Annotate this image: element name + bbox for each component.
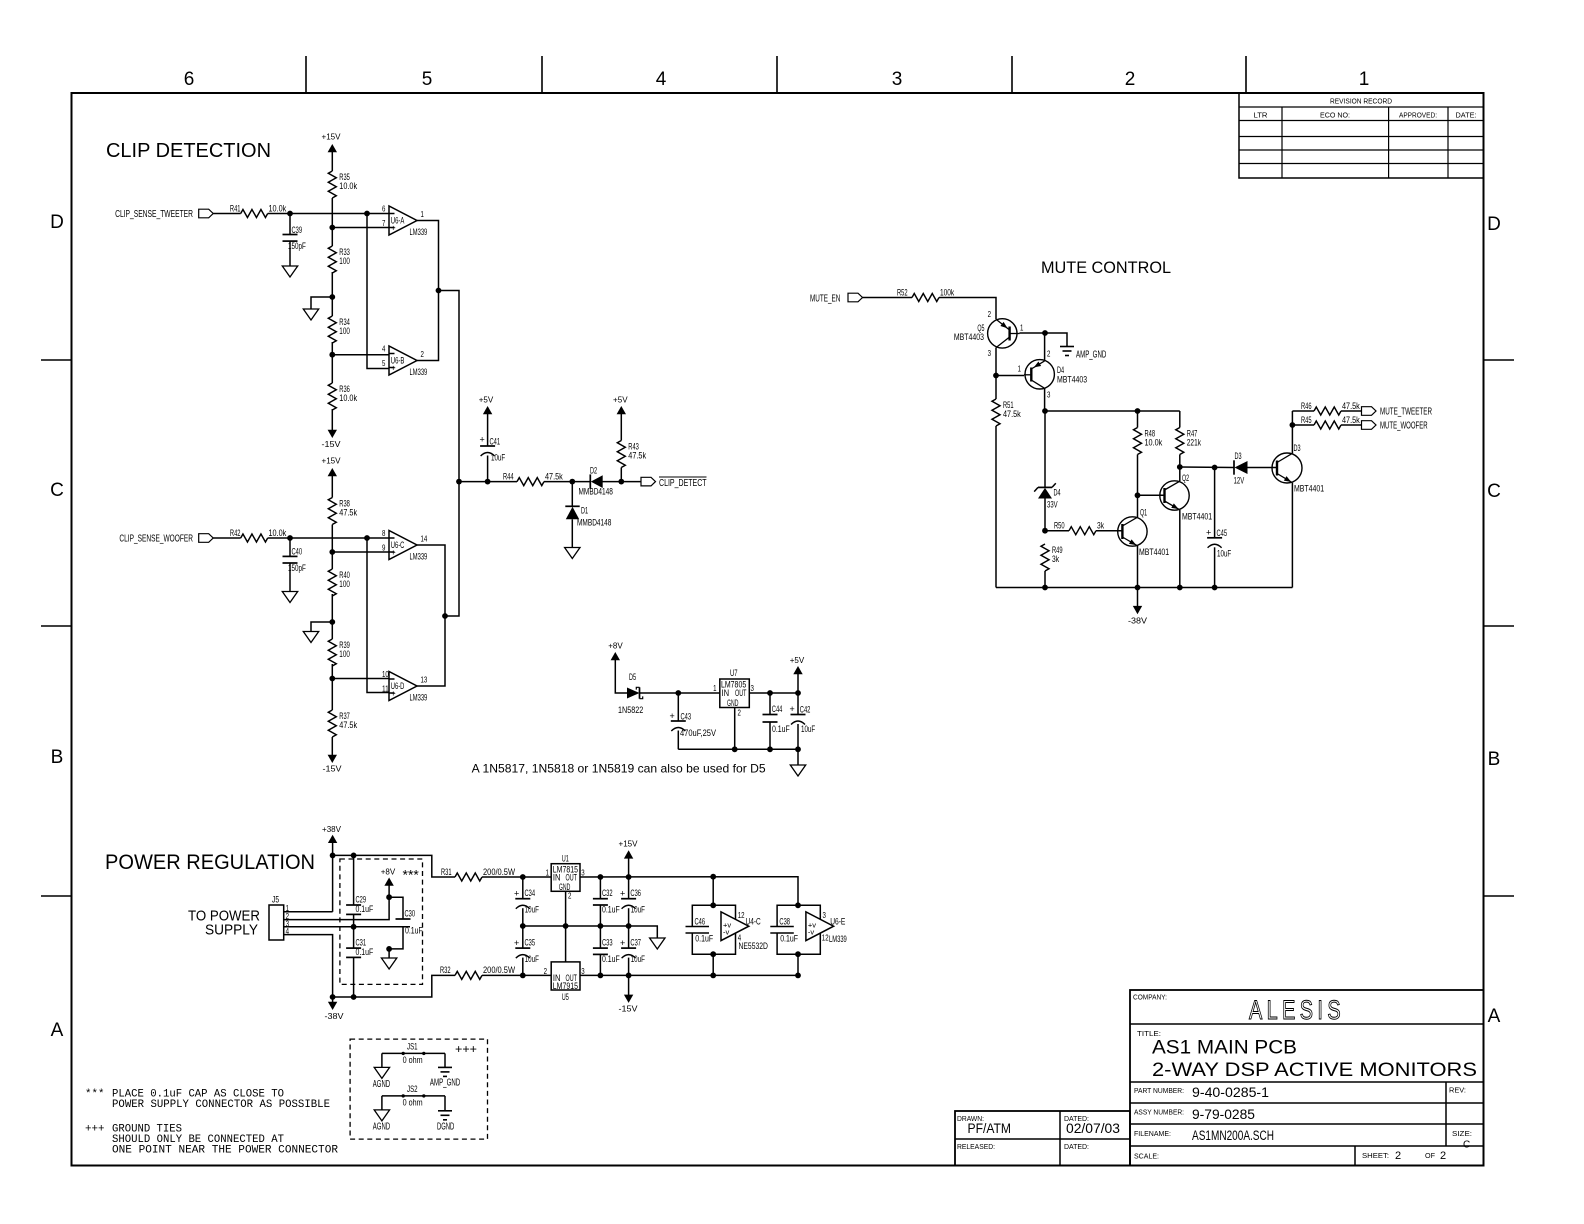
resistor R39 (328, 639, 350, 666)
net MUTE_TWEETER (1362, 407, 1433, 418)
svg-text:+++: +++ (455, 1042, 477, 1056)
svg-text:C39: C39 (292, 225, 303, 235)
svg-text:LTR: LTR (1254, 111, 1269, 120)
capacitor C31 (346, 927, 374, 997)
net CLIP_DETECT (641, 477, 707, 489)
resistor R46 (1292, 401, 1361, 415)
svg-text:7: 7 (382, 218, 386, 228)
resistor R42 (230, 528, 287, 542)
svg-text:APPROVED:: APPROVED: (1399, 111, 1437, 120)
column numbers (184, 69, 1370, 90)
svg-text:C44: C44 (772, 704, 783, 714)
ground AGND JS2 (373, 1110, 390, 1132)
node pin9 tap (329, 549, 389, 555)
svg-text:-15V: -15V (323, 764, 342, 774)
net CLIP_SENSE_WOOFER (119, 534, 240, 545)
svg-text:10uF: 10uF (631, 905, 646, 915)
svg-text:D3: D3 (1294, 443, 1301, 453)
wire Q5 base to AMP_GND node (1020, 330, 1068, 346)
svg-text:1: 1 (1018, 364, 1022, 374)
resistor R38 (328, 498, 357, 525)
capacitor C41 (479, 395, 506, 482)
svg-text:+: + (670, 711, 675, 721)
svg-text:C37: C37 (630, 937, 641, 947)
row ticks left and right (41, 360, 1514, 896)
svg-text:470uF,25V: 470uF,25V (680, 728, 716, 738)
wire D4 collector down (1044, 388, 1046, 411)
svg-text:1: 1 (713, 683, 717, 693)
ground D1 (565, 548, 580, 559)
svg-text:6: 6 (382, 204, 386, 214)
svg-text:SIZE:: SIZE: (1452, 1129, 1472, 1138)
svg-text:+5V: +5V (790, 655, 805, 665)
svg-text:47.5k: 47.5k (628, 451, 646, 461)
power +15V (woofer divider) (322, 456, 341, 498)
svg-text:2: 2 (1047, 349, 1051, 359)
rail -15V row (580, 954, 801, 978)
svg-text:REVISION RECORD: REVISION RECORD (1330, 97, 1392, 106)
power -38V (325, 997, 344, 1021)
regulator U7 LM7805 (713, 668, 754, 749)
svg-text:+: + (514, 889, 519, 899)
svg-text:C30: C30 (405, 909, 416, 919)
svg-text:CLIP DETECTION: CLIP DETECTION (106, 140, 271, 162)
svg-text:33V: 33V (1047, 500, 1058, 510)
svg-text:2: 2 (568, 891, 572, 901)
wire J5 pin2 (284, 897, 389, 919)
svg-text:MBT4403: MBT4403 (954, 332, 984, 342)
op-amp U6-D (382, 669, 427, 703)
svg-text:POWER REGULATION: POWER REGULATION (105, 851, 315, 874)
ground mid rail (650, 938, 665, 949)
svg-text:C40: C40 (292, 547, 303, 557)
transistor Q2 (1160, 473, 1212, 522)
svg-text:LM339: LM339 (410, 367, 428, 377)
svg-text:+8V: +8V (381, 867, 396, 877)
capacitor C38 (770, 917, 798, 944)
svg-text:C42: C42 (800, 705, 811, 715)
svg-text:ALESIS: ALESIS (1249, 995, 1345, 1025)
wire Q5-D4 base link (996, 375, 1024, 377)
ground triangle U7 (790, 765, 805, 776)
svg-text:REV:: REV: (1449, 1086, 1466, 1095)
label TO POWER SUPPLY (188, 908, 260, 939)
svg-text:2: 2 (1395, 1150, 1401, 1162)
jumper JS2 (382, 1084, 445, 1111)
svg-text:+: + (480, 435, 485, 445)
svg-text:2-WAY DSP ACTIVE MONITORS: 2-WAY DSP ACTIVE MONITORS (1152, 1060, 1477, 1081)
note place caps (85, 1088, 330, 1110)
svg-text:-v: -v (723, 928, 729, 937)
op-amp U4-C (721, 910, 768, 951)
svg-text:POWER SUPPLY CONNECTOR AS POSS: POWER SUPPLY CONNECTOR AS POSSIBLE (112, 1099, 330, 1111)
power -15V (tweeter divider) (322, 409, 341, 449)
wire R42 to opamp (268, 535, 389, 541)
power +15V (tweeter divider) (322, 132, 341, 172)
transistor Q5 (954, 309, 1024, 358)
svg-text:10uF: 10uF (801, 724, 816, 734)
transistor D3 (Q) (1272, 443, 1324, 494)
svg-text:U1: U1 (562, 854, 569, 864)
power -38V mute (1128, 588, 1147, 626)
svg-text:3: 3 (823, 910, 827, 920)
svg-text:C36: C36 (630, 888, 641, 898)
svg-text:10.0k: 10.0k (339, 181, 357, 191)
svg-text:+: + (391, 688, 396, 698)
ground AGND JS1 (373, 1067, 390, 1090)
wire Q1 emitter (1137, 546, 1139, 588)
svg-text:12: 12 (822, 933, 829, 943)
node pin4 tap (329, 352, 389, 358)
svg-text:6: 6 (184, 69, 195, 90)
node R50 tap (1042, 528, 1069, 534)
svg-text:ONE POINT NEAR THE POWER CONNE: ONE POINT NEAR THE POWER CONNECTOR (112, 1144, 339, 1156)
svg-text:FILENAME:: FILENAME: (1134, 1129, 1171, 1138)
svg-text:0.1uF: 0.1uF (602, 954, 620, 964)
svg-text:+: + (620, 889, 625, 899)
rail mid GND row (520, 923, 657, 938)
svg-text:R41: R41 (230, 203, 241, 213)
power -15V arrow (619, 975, 638, 1013)
diode D5 (618, 672, 720, 715)
svg-text:-38V: -38V (325, 1011, 344, 1021)
power +5V into D5 (608, 641, 627, 693)
wire U7 output (749, 690, 801, 696)
wire J5 pin4 (284, 935, 333, 997)
svg-text:0 ohm: 0 ohm (403, 1055, 423, 1065)
resistor R31 (441, 867, 551, 881)
svg-text:150pF: 150pF (288, 241, 306, 251)
wire R39-R37 (331, 664, 333, 710)
ground C39 (282, 266, 297, 277)
svg-text:2: 2 (421, 349, 425, 359)
note ground ties (85, 1124, 339, 1157)
svg-text:9: 9 (382, 543, 386, 553)
svg-text:B: B (51, 747, 64, 768)
svg-text:JS2: JS2 (407, 1084, 418, 1094)
wire U6-A/B outputs (417, 221, 459, 617)
wire R35-R33 divider segment (331, 198, 333, 246)
ground C40 (282, 592, 297, 603)
svg-text:47.5k: 47.5k (1003, 409, 1021, 419)
svg-text:1: 1 (421, 209, 425, 219)
svg-text:R44: R44 (503, 471, 514, 481)
svg-text:2: 2 (738, 708, 742, 718)
svg-text:AS1MN200A.SCH: AS1MN200A.SCH (1192, 1128, 1274, 1143)
svg-text:DATE:: DATE: (1456, 111, 1477, 120)
svg-text:IN: IN (722, 688, 730, 698)
svg-text:1: 1 (546, 868, 550, 878)
svg-text:NE5532D: NE5532D (739, 941, 769, 951)
svg-text:3: 3 (892, 69, 903, 90)
svg-text:R42: R42 (230, 528, 241, 538)
svg-text:MUTE_WOOFER: MUTE_WOOFER (1380, 421, 1428, 432)
wire Q2 collector row (1180, 465, 1234, 471)
svg-text:MBT4403: MBT4403 (1057, 375, 1087, 385)
svg-text:10uF: 10uF (525, 954, 540, 964)
wire Q1 collector (1135, 492, 1141, 517)
svg-text:47.5k: 47.5k (339, 508, 357, 518)
wire J5 pin1 (284, 911, 333, 913)
svg-text:100: 100 (339, 579, 350, 589)
svg-text:J5: J5 (272, 895, 279, 905)
capacitor C34 (514, 877, 539, 926)
svg-text:0.1uF: 0.1uF (602, 905, 620, 915)
svg-text:JS1: JS1 (407, 1042, 418, 1052)
svg-text:100: 100 (339, 649, 350, 659)
op-amp U6-A (382, 204, 427, 238)
svg-text:MUTE_TWEETER: MUTE_TWEETER (1380, 407, 1432, 418)
svg-text:CLIP_SENSE_TWEETER: CLIP_SENSE_TWEETER (115, 209, 193, 220)
resistor R41 (230, 203, 287, 217)
resistor R37 (328, 710, 357, 737)
svg-text:RELEASED:: RELEASED: (957, 1142, 995, 1151)
svg-text:12: 12 (738, 910, 745, 920)
svg-text:C45: C45 (1217, 528, 1228, 538)
svg-text:5: 5 (382, 358, 386, 368)
svg-text:OUT: OUT (735, 688, 747, 698)
svg-text:AMP_GND: AMP_GND (1076, 350, 1106, 361)
svg-text:U5: U5 (562, 992, 569, 1002)
svg-text:U4-C: U4-C (746, 917, 762, 927)
svg-text:LM339: LM339 (829, 934, 847, 944)
svg-text:10.0k: 10.0k (339, 393, 357, 403)
svg-text:02/07/03: 02/07/03 (1066, 1121, 1120, 1136)
svg-text:47.5k: 47.5k (545, 471, 563, 481)
svg-text:R46: R46 (1301, 401, 1312, 411)
svg-text:D3: D3 (1235, 451, 1242, 461)
svg-text:MMBD4148: MMBD4148 (577, 518, 611, 528)
resistor R44 (503, 471, 563, 485)
svg-text:0.1uF: 0.1uF (780, 934, 798, 944)
svg-text:A: A (1488, 1006, 1501, 1027)
svg-text:10: 10 (382, 669, 389, 679)
svg-text:3k: 3k (1052, 554, 1059, 564)
svg-text:3: 3 (751, 683, 755, 693)
svg-text:47.5k: 47.5k (1342, 401, 1360, 411)
svg-text:0.1uF: 0.1uF (695, 934, 713, 944)
svg-text:***: *** (403, 867, 420, 883)
op-amp U6-E (806, 910, 847, 944)
ground AMP_GND JS1 (430, 1067, 460, 1088)
svg-text:D: D (1487, 214, 1501, 235)
wire Q1 base to Q2 (1138, 494, 1165, 496)
ground AGND C30 (381, 958, 396, 969)
section title CLIP DETECTION (106, 140, 271, 162)
wire Q2 emitter (1179, 510, 1181, 588)
op-amp U6-B (382, 344, 427, 378)
svg-text:C43: C43 (681, 712, 692, 722)
bypass box U6-E (777, 902, 820, 957)
power -15V (woofer divider) (323, 737, 342, 774)
svg-text:ASSY NUMBER:: ASSY NUMBER: (1134, 1108, 1184, 1117)
ground tap lower (303, 619, 335, 642)
wire D4 emitter up (1044, 333, 1046, 361)
svg-text:9-40-0285-1: 9-40-0285-1 (1192, 1085, 1269, 1100)
svg-text:14: 14 (421, 534, 428, 544)
svg-text:***: *** (85, 1088, 104, 1100)
svg-text:10uF: 10uF (1217, 549, 1232, 559)
capacitor C46 (686, 917, 714, 944)
zener D4 (1034, 411, 1060, 531)
svg-text:+38V: +38V (322, 824, 341, 834)
svg-text:47.5k: 47.5k (339, 720, 357, 730)
capacitor C33 (593, 926, 620, 975)
resistor R52 (897, 287, 955, 301)
svg-text:150pF: 150pF (288, 563, 306, 573)
svg-text:GND: GND (727, 698, 739, 708)
svg-text:4: 4 (382, 344, 386, 354)
svg-text:C: C (1487, 481, 1501, 502)
svg-text:2: 2 (1125, 69, 1136, 90)
ground tap upper (303, 294, 335, 320)
svg-text:47.5k: 47.5k (1342, 415, 1360, 425)
svg-text:9-79-0285: 9-79-0285 (1192, 1107, 1255, 1122)
svg-text:SHEET:: SHEET: (1362, 1151, 1389, 1160)
svg-text:+5V: +5V (613, 395, 628, 405)
svg-text:MBT4401: MBT4401 (1182, 512, 1212, 522)
svg-text:OF: OF (1425, 1151, 1435, 1160)
svg-text:200/0.5W: 200/0.5W (483, 965, 515, 975)
power +15V arrow (619, 838, 638, 877)
svg-text:AS1 MAIN PCB: AS1 MAIN PCB (1152, 1038, 1297, 1059)
svg-text:CLIP_SENSE_WOOFER: CLIP_SENSE_WOOFER (119, 534, 193, 545)
svg-text:A: A (51, 1020, 64, 1041)
svg-text:11: 11 (382, 684, 389, 694)
svg-text:2: 2 (988, 309, 992, 319)
svg-text:100: 100 (339, 256, 350, 266)
resistor R36 (328, 383, 357, 410)
svg-text:U7: U7 (730, 668, 738, 678)
svg-text:AGND: AGND (373, 1079, 390, 1090)
svg-text:10uF: 10uF (631, 954, 646, 964)
svg-text:MUTE_EN: MUTE_EN (810, 294, 840, 305)
svg-text:+8V: +8V (608, 641, 623, 651)
svg-text:0.1uF: 0.1uF (356, 947, 374, 957)
svg-text:-15V: -15V (322, 439, 341, 449)
wire R34-R36 (331, 342, 333, 383)
capacitor C36 (620, 877, 645, 926)
resistor R35 (328, 171, 357, 198)
svg-text:R31: R31 (441, 867, 452, 877)
wire to U6-D plus input (367, 538, 389, 693)
svg-text:A 1N5817, 1N5818 or 1N5819 can: A 1N5817, 1N5818 or 1N5819 can also be u… (472, 761, 766, 775)
svg-text:PF/ATM: PF/ATM (968, 1121, 1012, 1136)
resistor R43 (613, 395, 646, 482)
svg-text:+5V: +5V (479, 395, 494, 405)
svg-text:3: 3 (581, 966, 585, 976)
svg-text:LM339: LM339 (410, 227, 428, 237)
svg-text:LM7915: LM7915 (553, 981, 578, 991)
svg-text:+: + (391, 547, 396, 557)
svg-text:+: + (1206, 528, 1211, 538)
svg-text:+15V: +15V (322, 132, 341, 142)
net MUTE_WOOFER (1362, 421, 1428, 432)
svg-text:2: 2 (1440, 1150, 1446, 1162)
bypass box U4-C (692, 877, 735, 976)
ground rail under U7 (678, 746, 801, 765)
wire D3 emitter down (1291, 483, 1293, 588)
svg-text:1: 1 (1359, 69, 1370, 90)
svg-text:-v: -v (808, 928, 814, 937)
wire to U6-B plus input (367, 214, 389, 369)
sheet border frame (72, 93, 1484, 1166)
svg-text:D: D (50, 212, 64, 233)
svg-text:PART NUMBER:: PART NUMBER: (1134, 1086, 1184, 1095)
resistor R49 (1041, 544, 1063, 588)
svg-text:+++: +++ (85, 1124, 104, 1136)
svg-text:0.1uF: 0.1uF (405, 926, 423, 936)
svg-text:+15V: +15V (322, 456, 341, 466)
svg-text:Q2: Q2 (1182, 473, 1189, 483)
resistor R50 (1054, 521, 1122, 535)
wire +38 to J5 pin1 (332, 855, 334, 911)
svg-text:Q1: Q1 (1140, 508, 1147, 518)
svg-text:8: 8 (382, 528, 386, 538)
svg-text:12V: 12V (1234, 476, 1245, 486)
svg-text:SUPPLY: SUPPLY (205, 922, 258, 939)
svg-text:D4: D4 (1054, 488, 1061, 498)
svg-text:10uF: 10uF (525, 905, 540, 915)
svg-text:200/0.5W: 200/0.5W (483, 867, 515, 877)
ground AMP_GND at Q5 (1060, 347, 1106, 361)
capacitor C43 (670, 693, 717, 749)
svg-text:LM339: LM339 (410, 552, 428, 562)
revision record table (1239, 93, 1484, 178)
svg-text:MUTE CONTROL: MUTE CONTROL (1041, 258, 1171, 277)
svg-text:+: + (391, 363, 396, 373)
svg-text:100: 100 (339, 326, 350, 336)
svg-text:C: C (50, 480, 64, 501)
svg-text:MMBD4148: MMBD4148 (579, 487, 613, 497)
svg-text:1N5822: 1N5822 (618, 705, 643, 715)
svg-text:+: + (514, 938, 519, 948)
svg-text:10.0k: 10.0k (269, 528, 287, 538)
node clip output junction (456, 479, 517, 485)
wire J5 pin3 (284, 924, 410, 930)
svg-text:U6-E: U6-E (830, 917, 845, 927)
resistor R40 (328, 569, 350, 596)
svg-text:3: 3 (1047, 390, 1051, 400)
svg-text:C41: C41 (490, 437, 501, 447)
power rail +38 top (330, 853, 455, 878)
capacitor C45 (1206, 468, 1232, 588)
svg-text:MBT4401: MBT4401 (1294, 484, 1324, 494)
diode D2 (579, 466, 613, 497)
svg-text:3k: 3k (1097, 521, 1104, 531)
resistor R45 (1292, 415, 1361, 429)
resistor R32 (440, 965, 551, 979)
mute upper rail (1042, 408, 1180, 414)
net CLIP_SENSE_TWEETER (115, 209, 241, 220)
jumper JS1 (382, 1042, 445, 1068)
svg-text:CLIP_DETECT: CLIP_DETECT (659, 478, 707, 489)
wire R40-R39 (331, 594, 333, 639)
svg-text:D1: D1 (581, 506, 588, 516)
wire R44 to D2 (544, 479, 591, 485)
svg-text:C46: C46 (695, 917, 706, 927)
svg-text:SCALE:: SCALE: (1134, 1152, 1159, 1161)
dashed box ground ties (350, 1039, 487, 1139)
diode D1 (565, 482, 611, 548)
note D5 alternatives (472, 761, 766, 775)
capacitor C35 (514, 926, 539, 975)
capacitor C30 (386, 897, 423, 958)
wire R41 to opamp (268, 211, 389, 217)
capacitor C32 (593, 877, 620, 926)
capacitor C29 (346, 855, 374, 926)
svg-text:100k: 100k (940, 287, 955, 297)
